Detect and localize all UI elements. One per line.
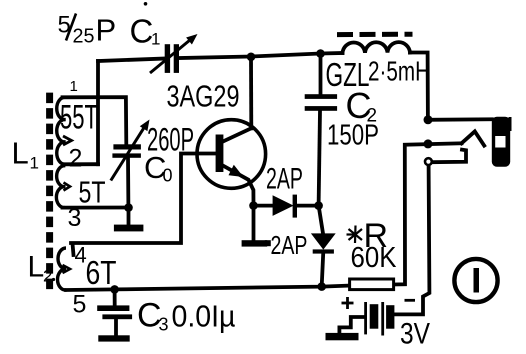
svg-text:6T: 6T: [86, 254, 117, 291]
svg-text:P: P: [96, 13, 117, 48]
svg-text:2AP: 2AP: [266, 163, 303, 196]
svg-text:C: C: [130, 13, 154, 50]
svg-text:2AP: 2AP: [271, 230, 308, 260]
svg-text:60K: 60K: [351, 242, 398, 274]
svg-text:L: L: [12, 136, 29, 171]
svg-text:2·5mH: 2·5mH: [368, 56, 430, 87]
svg-text:1: 1: [151, 30, 160, 49]
svg-text:2: 2: [69, 145, 83, 173]
svg-text:2: 2: [43, 267, 52, 286]
svg-text:1: 1: [70, 78, 78, 95]
svg-text:0: 0: [163, 166, 173, 186]
svg-text:5: 5: [73, 291, 87, 319]
svg-text:0.0Iµ: 0.0Iµ: [172, 299, 236, 334]
svg-text:1: 1: [30, 154, 39, 173]
svg-text:55T: 55T: [60, 99, 98, 137]
svg-text:3: 3: [159, 315, 169, 335]
svg-text:5: 5: [58, 12, 71, 39]
svg-text:5T: 5T: [79, 175, 106, 210]
svg-text:3V: 3V: [400, 318, 430, 351]
svg-text:150P: 150P: [327, 120, 379, 152]
svg-text:25: 25: [73, 26, 95, 48]
svg-text:L: L: [28, 251, 45, 284]
svg-text:3: 3: [68, 204, 82, 232]
svg-text:3AG29: 3AG29: [167, 79, 240, 114]
